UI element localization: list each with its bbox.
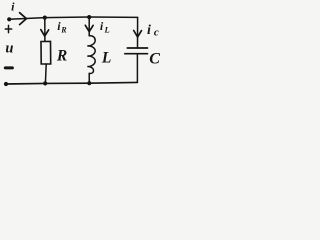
arrow source current i [20,13,27,25]
node junction top of L branch [87,15,91,19]
resistor R [41,41,51,64]
node junction top of R branch [43,16,47,20]
wire R branch bottom [44,64,47,83]
label minus [5,66,12,69]
wire C branch top (right edge) [137,17,139,48]
svg-text:u: u [5,41,13,57]
wire L branch top [88,17,90,36]
svg-text:R: R [56,48,67,65]
svg-text:L: L [104,25,110,35]
wire bottom rail [6,82,137,84]
wire R branch top [44,18,46,42]
svg-text:c: c [154,26,159,38]
arrow branch current iR [41,30,49,36]
svg-text:R: R [60,26,67,35]
wire top rail [9,17,137,19]
inductor L [87,36,95,74]
wire C branch bottom [136,54,138,83]
wire L branch bottom [88,73,90,83]
label + [5,25,11,32]
svg-text:C: C [149,50,160,67]
svg-text:i: i [147,23,151,38]
arrow branch current iL [85,25,93,31]
node top-left terminal [7,17,11,21]
svg-text:i: i [11,0,15,14]
node junction bottom of L branch [87,81,91,85]
capacitor C top plate [127,47,147,49]
svg-text:i: i [100,19,104,33]
node bottom-left terminal [4,82,8,86]
capacitor C bottom plate [125,53,148,55]
arrow branch current iC [134,31,142,38]
svg-text:L: L [101,50,111,67]
node junction bottom of R branch [43,81,47,85]
